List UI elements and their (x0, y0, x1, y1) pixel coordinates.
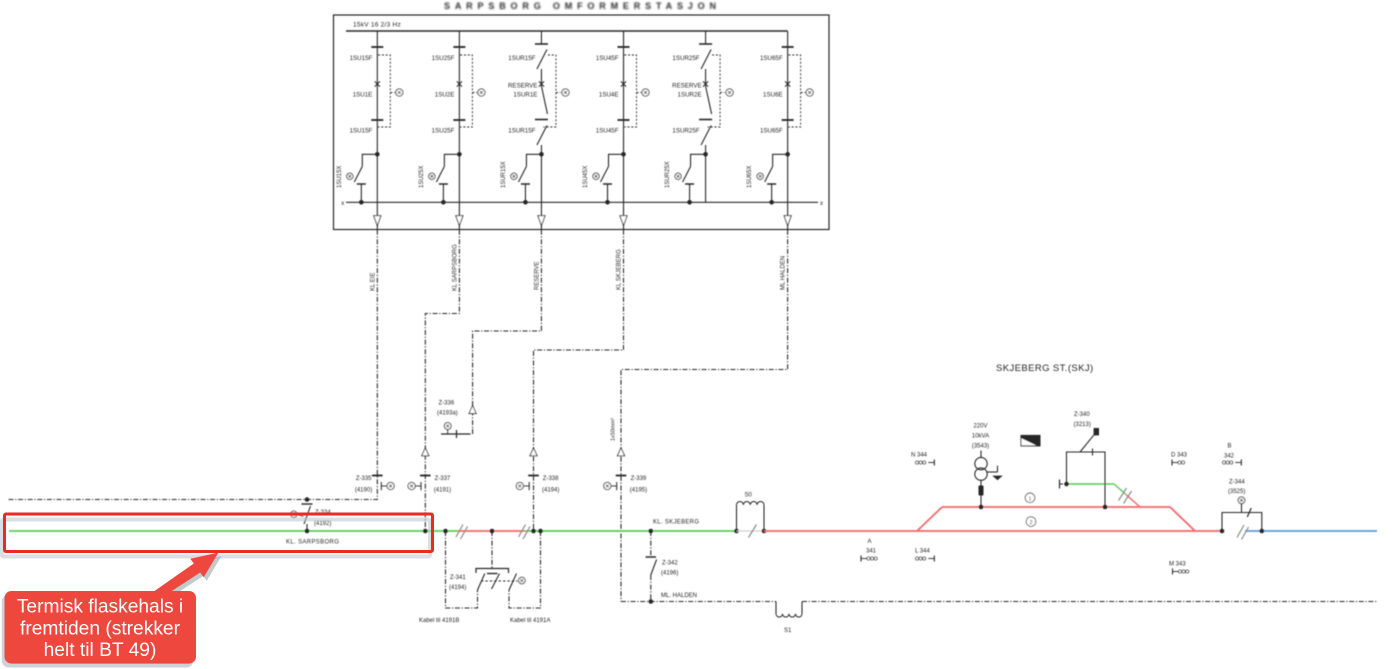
svg-text:1SU25F: 1SU25F (432, 128, 455, 135)
svg-text:1SUR15F: 1SUR15F (508, 55, 535, 62)
svg-text:10kVA: 10kVA (972, 434, 989, 440)
svg-text:341: 341 (866, 549, 877, 555)
svg-text:helt til BT 49): helt til BT 49) (44, 640, 157, 661)
svg-text:(4192): (4192) (314, 521, 331, 527)
svg-text:KL. SKJEBERG: KL. SKJEBERG (653, 520, 699, 526)
svg-text:S1: S1 (784, 628, 792, 634)
svg-text:N 344: N 344 (911, 453, 928, 459)
svg-text:D 343: D 343 (1171, 453, 1188, 459)
svg-text:1SUR1E: 1SUR1E (513, 92, 537, 99)
svg-text:1SU15F: 1SU15F (350, 128, 373, 135)
svg-text:(3543): (3543) (972, 444, 989, 450)
svg-text:KL SARPSBORG: KL SARPSBORG (452, 244, 458, 291)
svg-text:(4193a): (4193a) (437, 411, 458, 417)
svg-text:Z-336: Z-336 (439, 401, 455, 407)
svg-text:1SU45X: 1SU45X (583, 166, 589, 188)
svg-text:1SU4E: 1SU4E (599, 92, 619, 99)
svg-text:RESERVE: RESERVE (508, 83, 537, 90)
svg-text:(3525): (3525) (1228, 489, 1245, 495)
svg-text:1SU25F: 1SU25F (432, 55, 455, 62)
svg-text:fremtiden (strekker: fremtiden (strekker (20, 618, 181, 639)
svg-text:M 343: M 343 (1169, 562, 1186, 568)
svg-text:1SU45F: 1SU45F (596, 128, 619, 135)
svg-text:ML HALDEN: ML HALDEN (781, 256, 787, 290)
svg-text:KL EIE: KL EIE (370, 273, 376, 291)
svg-text:Z-341: Z-341 (450, 575, 466, 581)
svg-text:SKJEBERG ST.(SKJ): SKJEBERG ST.(SKJ) (996, 363, 1094, 374)
svg-text:1: 1 (1028, 496, 1031, 502)
svg-text:Z-338: Z-338 (543, 476, 559, 482)
svg-text:220V: 220V (973, 424, 987, 430)
svg-text:2: 2 (1029, 520, 1032, 526)
svg-text:Z-342: Z-342 (662, 561, 678, 567)
svg-text:1SUR25F: 1SUR25F (672, 55, 699, 62)
svg-text:(4190): (4190) (355, 487, 372, 493)
svg-text:Kabel til 4191A: Kabel til 4191A (510, 618, 550, 624)
svg-text:Z-339: Z-339 (631, 476, 647, 482)
svg-text:(4191): (4191) (434, 487, 451, 493)
svg-text:B: B (1227, 444, 1231, 450)
svg-text:1SU45F: 1SU45F (596, 55, 619, 62)
svg-text:RESERVE: RESERVE (672, 83, 701, 90)
svg-text:KL. SARPSBORG: KL. SARPSBORG (286, 540, 339, 546)
svg-text:1SUR25F: 1SUR25F (672, 128, 699, 135)
svg-text:ML. HALDEN: ML. HALDEN (661, 593, 697, 599)
svg-text:KL SKJEBERG: KL SKJEBERG (617, 249, 623, 290)
svg-text:1SU2E: 1SU2E (435, 92, 455, 99)
svg-text:1SU65F: 1SU65F (760, 55, 783, 62)
svg-text:1SUR2E: 1SUR2E (678, 92, 702, 99)
svg-text:(4195): (4195) (630, 487, 647, 493)
svg-text:1SU65X: 1SU65X (747, 166, 753, 188)
svg-text:L 344: L 344 (915, 549, 930, 555)
svg-text:Z-335: Z-335 (356, 476, 372, 482)
svg-text:Termisk flaskehals i: Termisk flaskehals i (17, 597, 183, 618)
svg-text:1x50mm²: 1x50mm² (611, 418, 617, 441)
svg-text:A: A (867, 539, 871, 545)
svg-text:342: 342 (1224, 454, 1235, 460)
svg-text:S0: S0 (745, 493, 753, 499)
svg-text:Z-340: Z-340 (1074, 412, 1090, 418)
svg-text:15kV 16 2/3 Hz: 15kV 16 2/3 Hz (353, 22, 401, 29)
svg-text:1SU15F: 1SU15F (350, 55, 373, 62)
svg-text:1SU15X: 1SU15X (337, 166, 343, 188)
svg-text:1SU1E: 1SU1E (353, 92, 373, 99)
svg-text:1SU6E: 1SU6E (763, 92, 783, 99)
svg-text:Z-344: Z-344 (1229, 480, 1245, 486)
svg-text:1SUR15X: 1SUR15X (501, 161, 507, 188)
svg-text:(4194): (4194) (449, 585, 466, 591)
svg-text:Z-337: Z-337 (435, 476, 451, 482)
svg-text:1SUR15F: 1SUR15F (508, 128, 535, 135)
svg-text:1SUR25X: 1SUR25X (665, 161, 671, 188)
svg-text:1SU65F: 1SU65F (760, 128, 783, 135)
svg-text:RESERVE: RESERVE (534, 261, 540, 290)
svg-text:(4194): (4194) (542, 487, 559, 493)
svg-text:(3213): (3213) (1074, 422, 1091, 428)
svg-text:x: x (820, 201, 823, 207)
svg-text:Kabel til 4191B: Kabel til 4191B (419, 618, 459, 624)
svg-text:x: x (341, 201, 344, 207)
svg-text:(4196): (4196) (661, 571, 678, 577)
svg-text:1SU25X: 1SU25X (419, 166, 425, 188)
